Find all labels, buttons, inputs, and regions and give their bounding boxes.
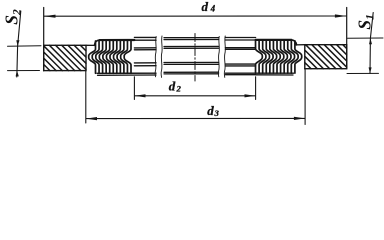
centerline (dash-dot axis) (194, 34, 196, 82)
extension line S2 top (8, 45, 42, 48)
svg-text:d4: d4 (202, 0, 216, 14)
right plate top edge extension into fold (296, 44, 305, 46)
extension line d2 left (133, 77, 135, 100)
extension line d3 left (85, 71, 87, 123)
break line (left segment right edge) (155, 37, 156, 77)
right plate (clamp ring) (305, 45, 347, 69)
top membrane right end hook (292, 40, 297, 45)
bottom membrane thick line under left fold (97, 72, 156, 74)
break line (center segment right edge) (218, 37, 219, 77)
extension line S1 top (348, 37, 384, 39)
bottom membrane thick line under right fold (256, 72, 294, 74)
top membrane thick line over right fold (256, 39, 292, 41)
membrane band lines center segment (164, 38, 219, 74)
extension line d4 left / left plate outer edge (43, 8, 45, 71)
membrane band lines left segment (134, 37, 156, 65)
svg-text:d2: d2 (169, 79, 182, 94)
dimension line S1 (369, 13, 374, 74)
dimension line d2 (134, 94, 255, 97)
dimension line d4 (44, 14, 347, 17)
top membrane left end hook (94, 40, 99, 45)
break line (center segment left edge) (161, 36, 162, 77)
extension line d3 right (304, 70, 306, 125)
extension line S2 bottom (8, 70, 40, 72)
left plate top edge extension into fold (86, 44, 96, 46)
extension line d2 right (255, 77, 257, 100)
extension line S1 bottom (347, 72, 379, 74)
right fold plies (corrugation stack) (256, 41, 302, 73)
dimension line S2 (16, 11, 21, 77)
break line (right segment left edge) (224, 36, 225, 77)
dimension line d3 (86, 117, 305, 120)
left plate (clamp ring) (44, 45, 86, 70)
membrane band lines right segment (225, 38, 255, 75)
left fold plies (corrugation stack) (89, 41, 131, 73)
top membrane thick line over left fold (100, 39, 135, 41)
extension line d4 right / right plate outer edge (346, 8, 348, 69)
svg-text:d3: d3 (207, 103, 219, 118)
